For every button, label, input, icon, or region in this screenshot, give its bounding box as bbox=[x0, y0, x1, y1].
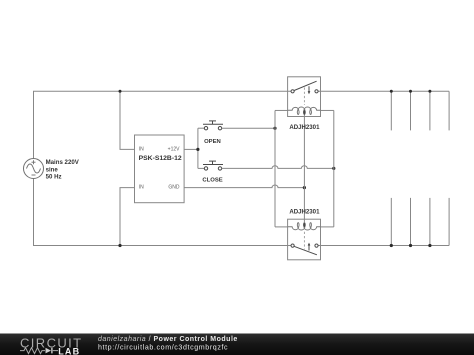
U1 label PSK-S12B-12 bbox=[139, 155, 182, 162]
svg-text:CLOSE: CLOSE bbox=[202, 177, 222, 183]
CircuitLab logo resistor squiggle bbox=[20, 348, 45, 354]
wire: U1 IN+ to top rail bbox=[120, 91, 135, 149]
wire: right bottom corner stub bbox=[448, 198, 450, 246]
wire: top stub 3 bbox=[429, 91, 431, 130]
wire: to OPEN button left bbox=[198, 127, 204, 129]
wire: K2 coil right lead to bus B bbox=[321, 226, 334, 228]
relay K1 actuator arrow bbox=[308, 86, 311, 94]
relay K2 switch contacts bbox=[291, 244, 318, 255]
relay K2 box bbox=[288, 219, 321, 260]
svg-text:http://circuitlab.com/c3dtcgmb: http://circuitlab.com/c3dtcgmbrqzfc bbox=[98, 343, 228, 351]
svg-text:Mains 220V: Mains 220V bbox=[46, 159, 80, 166]
U1 pin label IN bottom bbox=[139, 185, 144, 191]
CircuitLab logo wordmark LAB bbox=[58, 346, 80, 355]
wire: coil-left bus vertical x=275 bbox=[274, 110, 276, 226]
U1 pin label IN top bbox=[139, 146, 144, 152]
wire: bottom rail left (V1 bottom to relay K2 left pin) bbox=[34, 179, 291, 246]
node: junction bottom rail / U1 IN- bbox=[118, 244, 121, 247]
wire: to CLOSE button left bbox=[198, 167, 204, 169]
wire: top rail right (relay K1 right pin to right corner) bbox=[318, 90, 449, 92]
svg-text:danielzaharia / Power Control: danielzaharia / Power Control Module bbox=[98, 336, 238, 343]
wire: top stub 1 bbox=[390, 91, 392, 130]
SW1 label OPEN bbox=[204, 139, 221, 145]
wire: coil-center bus vertical x=304.4 bbox=[303, 113, 305, 222]
svg-text:IN: IN bbox=[139, 185, 144, 191]
node B: junction CLOSE / coil-right bus bbox=[332, 167, 335, 170]
CircuitLab logo wordmark CIRCUIT bbox=[20, 336, 83, 351]
svg-text:GND: GND bbox=[168, 185, 180, 191]
K1 label ADJH2301 bbox=[289, 124, 320, 131]
relay K2 coil (inverted) bbox=[288, 222, 321, 230]
wire: button feed vertical bbox=[197, 128, 199, 168]
wire: K1 coil right lead to bus B bbox=[321, 109, 334, 111]
node: bottom rail junction dots bbox=[390, 244, 432, 247]
CircuitLab logo lead to LAB bbox=[53, 350, 58, 352]
node: +12V junction bbox=[196, 148, 199, 151]
wire: right top corner stub bbox=[448, 91, 450, 130]
wire: OPEN button to node A (x=275) bbox=[222, 127, 275, 129]
relay K1 coil bbox=[288, 107, 321, 115]
U1 pin label +12V bbox=[168, 146, 180, 152]
CircuitLab logo diode arrow bbox=[46, 348, 53, 354]
wire: bottom rail right (relay K2 right pin to right corner) bbox=[318, 245, 449, 247]
wire: K1 coil left lead to bus A bbox=[275, 109, 288, 111]
svg-text:50 Hz: 50 Hz bbox=[46, 173, 62, 180]
svg-text:PSK-S12B-12: PSK-S12B-12 bbox=[139, 155, 182, 162]
V1 value label bbox=[46, 159, 80, 180]
pushbutton SW1 OPEN bbox=[203, 121, 223, 130]
wire: U1 +12V output to buttons bbox=[184, 148, 198, 150]
node: top rail junction dots bbox=[390, 90, 432, 93]
svg-text:LAB: LAB bbox=[58, 346, 80, 355]
svg-text:+12V: +12V bbox=[168, 146, 180, 152]
wire: bottom stub 1 bbox=[390, 198, 392, 246]
svg-text:ADJH2301: ADJH2301 bbox=[289, 209, 320, 216]
svg-text:IN: IN bbox=[139, 146, 144, 152]
wire: top stub 2 bbox=[410, 91, 412, 130]
relay K1 box bbox=[288, 77, 321, 117]
wire: K2 coil left lead to bus A bbox=[275, 226, 288, 228]
relay K1 switch contacts bbox=[291, 81, 318, 93]
node: junction top rail / U1 IN+ bbox=[119, 90, 122, 93]
footer bar bbox=[0, 334, 474, 355]
U1 pin label GND bbox=[168, 185, 180, 191]
SW2 label CLOSE bbox=[202, 177, 222, 183]
svg-text:ADJH2301: ADJH2301 bbox=[289, 124, 320, 131]
wire: CLOSE button to node B (x=333.8) with hops bbox=[222, 166, 334, 169]
K2 label ADJH2301 bbox=[289, 209, 320, 216]
pushbutton SW2 CLOSE bbox=[203, 161, 223, 170]
wire: bottom stub 2 bbox=[410, 198, 412, 246]
wire: bottom stub 3 bbox=[429, 198, 431, 246]
power module U1 PSK-S12B-12 box bbox=[135, 135, 185, 203]
wire: U1 IN- to bottom rail bbox=[120, 188, 135, 246]
voltage source V1 Mains 220V bbox=[24, 159, 44, 179]
node C: junction GND / coil-center bus bbox=[303, 186, 306, 189]
footer credit line bbox=[98, 336, 238, 351]
relay K1 mechanical link (dashed) bbox=[303, 88, 305, 106]
wire: top rail left (V1 top to relay K1 left pin) bbox=[34, 91, 291, 158]
node A: junction OPEN / coil-left bus bbox=[273, 127, 276, 130]
V1 polarity marks bbox=[32, 160, 36, 175]
svg-text:OPEN: OPEN bbox=[204, 139, 221, 145]
wire: U1 GND to node C (x=304.4) with hop bbox=[184, 185, 304, 188]
wire: coil-right bus vertical x=333.8 bbox=[333, 110, 335, 226]
relay K2 actuator arrow bbox=[308, 243, 311, 251]
relay K2 mechanical link (dashed) bbox=[303, 232, 305, 250]
